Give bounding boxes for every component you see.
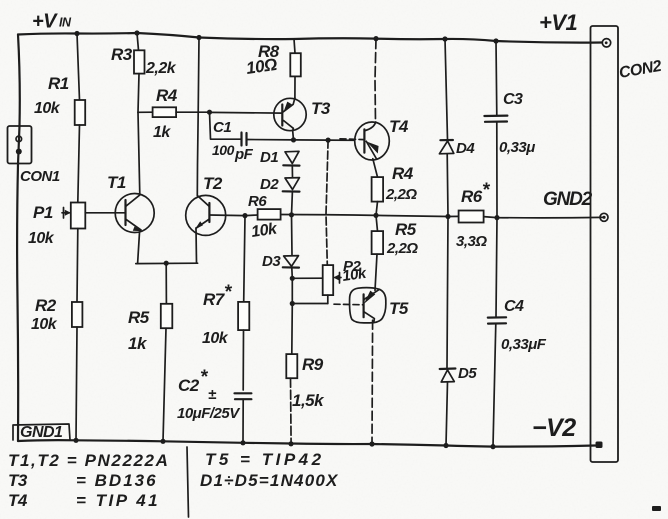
svg-text:R5: R5 bbox=[128, 308, 150, 327]
svg-text:T2: T2 bbox=[203, 174, 223, 193]
node +V1 terminal bbox=[602, 39, 610, 47]
svg-text:GND1: GND1 bbox=[20, 424, 63, 441]
svg-text:T1,T2 = PN2222A: T1,T2 = PN2222A bbox=[8, 451, 170, 470]
transistor T2 bbox=[186, 38, 226, 263]
svg-text:10k: 10k bbox=[34, 100, 61, 117]
svg-text:R9: R9 bbox=[302, 355, 324, 374]
mark bottom right bbox=[652, 506, 661, 511]
wire bottom rail bbox=[18, 440, 595, 446]
capacitor C4 bbox=[488, 218, 506, 447]
resistor R8 bbox=[290, 39, 301, 99]
node bottom rail junction dots bbox=[73, 438, 495, 450]
svg-text:C1: C1 bbox=[213, 119, 231, 136]
connector CON1 bbox=[8, 126, 32, 164]
svg-text:R5: R5 bbox=[395, 220, 417, 239]
svg-text:100: 100 bbox=[212, 142, 235, 158]
resistor R4b bbox=[372, 159, 384, 216]
svg-text:D1: D1 bbox=[260, 149, 278, 166]
svg-text:10k: 10k bbox=[31, 316, 58, 333]
svg-text:R3: R3 bbox=[111, 45, 133, 64]
svg-text:R4: R4 bbox=[156, 86, 178, 105]
svg-text:T3: T3 bbox=[311, 99, 331, 118]
svg-text:1k: 1k bbox=[128, 334, 148, 353]
svg-text:R6: R6 bbox=[461, 187, 483, 206]
svg-text:T1: T1 bbox=[107, 173, 126, 192]
svg-text:P1: P1 bbox=[33, 203, 53, 222]
resistor R5 bbox=[161, 263, 173, 441]
svg-text:D1÷D5=1N400X: D1÷D5=1N400X bbox=[200, 471, 339, 490]
wire D3 column down bbox=[291, 278, 293, 303]
resistor R4 bbox=[138, 107, 210, 117]
svg-text:= BD136: = BD136 bbox=[76, 471, 158, 490]
wire middle GND2 rail bbox=[209, 215, 602, 218]
diode D1 bbox=[283, 151, 299, 177]
svg-text:GND2: GND2 bbox=[543, 189, 593, 210]
svg-text:pF: pF bbox=[234, 146, 254, 163]
node R9 top junction bbox=[290, 301, 295, 306]
legend divider bbox=[187, 447, 189, 517]
node P2 column junction bbox=[326, 138, 331, 143]
svg-text:1,5k: 1,5k bbox=[292, 391, 325, 410]
node R4 right junction bbox=[207, 110, 212, 115]
wire T1 T2 emitter joint bbox=[136, 262, 198, 264]
wire C1 node to T4 base bbox=[294, 139, 354, 141]
svg-text:C4: C4 bbox=[504, 298, 524, 315]
node D3 bottom junction bbox=[290, 276, 295, 281]
svg-text:D3: D3 bbox=[262, 253, 281, 270]
svg-text:C2: C2 bbox=[178, 376, 200, 395]
diode D4 bbox=[439, 39, 453, 217]
svg-text:T4: T4 bbox=[8, 491, 28, 510]
diode D5 bbox=[440, 217, 456, 446]
wire top rail +VIN bbox=[18, 33, 602, 43]
svg-text:2,2Ω: 2,2Ω bbox=[386, 240, 418, 257]
node middle rail junction dots bbox=[242, 212, 499, 220]
node GND2 terminal bbox=[600, 213, 608, 221]
transistor T3 bbox=[210, 98, 306, 140]
svg-text:T4: T4 bbox=[389, 117, 409, 136]
diode D2 bbox=[283, 178, 300, 215]
node top rail junction dots bbox=[74, 30, 498, 43]
svg-text:C3: C3 bbox=[503, 91, 523, 108]
node -V2 terminal bbox=[596, 442, 603, 449]
resistor R7 bbox=[238, 216, 249, 390]
capacitor C1 bbox=[210, 112, 294, 145]
svg-text:D5: D5 bbox=[458, 365, 477, 382]
transistor T1 bbox=[85, 112, 154, 263]
svg-text:D2: D2 bbox=[260, 176, 279, 193]
svg-text:2,2Ω: 2,2Ω bbox=[385, 186, 417, 203]
svg-text:±: ± bbox=[208, 386, 217, 403]
transistor T5 bbox=[334, 288, 386, 444]
svg-text:R4: R4 bbox=[392, 164, 414, 183]
wire D3 junction to P2 top lead bbox=[292, 277, 322, 279]
wire junction to P2 bottom bbox=[292, 303, 328, 305]
resistor R6b bbox=[459, 211, 484, 223]
svg-text:T5 = TIP42: T5 = TIP42 bbox=[205, 450, 325, 469]
node emitter joint junction bbox=[164, 261, 169, 266]
potentiometer P2 bbox=[323, 140, 341, 303]
svg-text:10μF/25V: 10μF/25V bbox=[177, 405, 241, 422]
resistor R6 bbox=[258, 209, 281, 220]
resistor R1 bbox=[75, 34, 86, 203]
resistor R9 bbox=[286, 304, 297, 444]
capacitor C3 bbox=[484, 41, 507, 218]
svg-text:10k: 10k bbox=[28, 230, 55, 247]
diode D3 bbox=[283, 215, 299, 278]
svg-text:= TIP 41: = TIP 41 bbox=[76, 491, 160, 510]
svg-text:+V: +V bbox=[32, 11, 58, 33]
svg-text:3,3Ω: 3,3Ω bbox=[456, 233, 487, 250]
svg-text:T3: T3 bbox=[8, 471, 28, 490]
legend row3 left bbox=[8, 491, 160, 510]
svg-text:CON1: CON1 bbox=[20, 168, 60, 185]
svg-text:IN: IN bbox=[59, 16, 72, 30]
svg-text:R2: R2 bbox=[35, 296, 57, 315]
svg-text:+V1: +V1 bbox=[539, 10, 578, 35]
transistor T4 bbox=[340, 39, 389, 160]
label +VIN bbox=[32, 11, 72, 33]
legend row2 left bbox=[8, 471, 158, 490]
svg-text:T5: T5 bbox=[389, 299, 409, 318]
svg-text:2,2k: 2,2k bbox=[145, 60, 177, 77]
svg-text:R7: R7 bbox=[203, 290, 226, 309]
node C1/T3 junction bbox=[291, 137, 296, 142]
svg-text:10k: 10k bbox=[202, 330, 229, 347]
svg-text:−V2: −V2 bbox=[532, 414, 576, 442]
svg-text:0,33μF: 0,33μF bbox=[501, 336, 547, 353]
svg-text:10k: 10k bbox=[341, 265, 368, 285]
wire left rail bbox=[17, 35, 20, 442]
svg-text:R6: R6 bbox=[248, 193, 267, 210]
svg-text:D4: D4 bbox=[456, 140, 475, 157]
svg-text:1k: 1k bbox=[153, 124, 171, 141]
connector CON2 bbox=[591, 26, 619, 462]
label C1 value bbox=[212, 142, 254, 163]
capacitor C2 bbox=[235, 393, 252, 443]
svg-text:R1: R1 bbox=[48, 74, 69, 93]
wire GND1 box outline bbox=[13, 424, 70, 440]
resistor R3 bbox=[134, 33, 145, 112]
potentiometer P1 bbox=[62, 203, 85, 229]
resistor R2 bbox=[72, 229, 83, 441]
resistor R5b bbox=[372, 215, 384, 290]
svg-text:0,33μ: 0,33μ bbox=[499, 139, 535, 156]
